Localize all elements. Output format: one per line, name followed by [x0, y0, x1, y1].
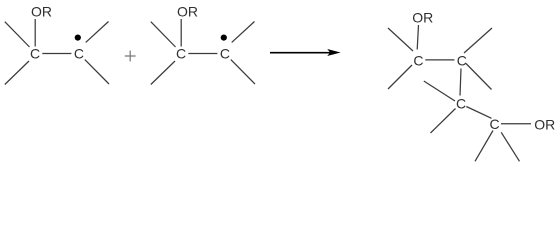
svg-text:C: C	[489, 116, 499, 132]
bond C6 methyl down-left	[475, 131, 493, 162]
bond C3 methyl up-left	[388, 28, 413, 51]
bond C3-C4	[425, 59, 454, 61]
svg-text:C: C	[220, 46, 230, 62]
bond C2' methyl down-right	[231, 60, 255, 84]
bond C1-C2	[42, 53, 71, 55]
svg-text:OR: OR	[177, 3, 198, 19]
svg-text:C: C	[457, 52, 467, 68]
radical dot on C2	[75, 35, 81, 41]
bond C5 methyl down-left	[431, 109, 456, 134]
bond C1'-C2'	[188, 53, 217, 55]
svg-text:C: C	[74, 46, 84, 62]
svg-text:C: C	[30, 46, 40, 62]
bond C2 methyl down-right	[85, 60, 109, 84]
plus sign	[125, 51, 136, 62]
bond C6 methyl down-right	[501, 132, 519, 161]
svg-text:C: C	[456, 96, 466, 112]
bond C5 methyl up-left	[424, 81, 455, 101]
svg-text:OR: OR	[534, 117, 555, 133]
svg-text:C: C	[176, 46, 186, 62]
radical dot on C2'	[221, 35, 227, 41]
svg-text:C: C	[413, 52, 423, 68]
bond O-C1'	[180, 19, 182, 47]
bond C1 methyl down-left	[5, 61, 29, 85]
reactant 2 : radical C(OR)(CH3)-C•(CH3)2	[151, 3, 255, 84]
bond C2 methyl up-right	[86, 22, 109, 43]
bond C1' methyl up-left	[151, 22, 176, 47]
bond C4 methyl up-right	[464, 28, 492, 53]
bond C5-C6	[466, 107, 491, 119]
bond C6-O	[501, 123, 531, 125]
bond O-C3	[417, 25, 418, 50]
reaction arrow	[270, 49, 341, 56]
reactant 1 : radical C(OR)(CH3)-C•(CH3)2	[5, 3, 109, 84]
svg-text:OR: OR	[412, 9, 433, 25]
bond C2' methyl up-right	[232, 22, 255, 43]
bond O-C1	[34, 19, 36, 47]
bond C4-C5	[460, 69, 461, 96]
bond C3 methyl down-left	[388, 65, 412, 89]
bond C1' methyl down-left	[151, 61, 175, 85]
svg-text:OR: OR	[31, 3, 52, 19]
bond C4 methyl down-right	[466, 64, 492, 90]
bond C1 methyl up-left	[5, 22, 30, 47]
product : dimer	[388, 9, 555, 161]
